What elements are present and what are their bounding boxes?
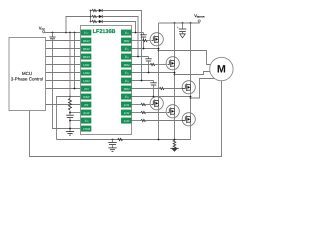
wire phase3 to motor bbox=[191, 79, 216, 99]
ground G4 analog triangle bbox=[180, 34, 186, 38]
resistor R11 gate 5 bbox=[141, 111, 146, 113]
svg-text:LO1: LO1 bbox=[123, 103, 130, 107]
pin LIN3 bbox=[81, 78, 91, 84]
op IC U1 LF2136B body bbox=[81, 26, 132, 135]
node junction RCIN bbox=[69, 112, 71, 114]
node junction phase1 tee bbox=[158, 50, 160, 52]
node junction VS1 bbox=[158, 48, 160, 50]
node junction COM bbox=[69, 128, 71, 130]
node junction VCC rail bootstrap feed bbox=[65, 32, 67, 34]
pin VS2 bbox=[121, 70, 131, 76]
resistor R3 bootstrap row 3 bbox=[91, 20, 97, 22]
wire MCU to LIN3 bbox=[46, 80, 82, 82]
wire R8 to Q2 gate bbox=[155, 64, 168, 66]
wire MCU to EN bbox=[46, 104, 82, 106]
wire VB2 bbox=[132, 56, 149, 58]
pin LO1 bbox=[121, 102, 131, 108]
svg-text:HO2: HO2 bbox=[123, 63, 130, 67]
wire D1 to VB3 bbox=[102, 11, 141, 81]
resistor R4 RCIN chain bbox=[69, 99, 72, 110]
pin VB2 bbox=[121, 54, 131, 60]
svg-text:MCU: MCU bbox=[22, 71, 32, 76]
wire HO1 bbox=[132, 40, 143, 42]
node junction C5 bottom bbox=[148, 72, 150, 74]
wire VSS bbox=[70, 120, 82, 122]
svg-text:HO3: HO3 bbox=[123, 87, 130, 91]
node junction VSS bbox=[69, 120, 71, 122]
pin VSS bbox=[81, 118, 91, 124]
pin VB1 bbox=[121, 30, 131, 36]
node junction FO pull-up bbox=[74, 88, 76, 90]
node junction VS3 bbox=[190, 96, 192, 98]
wire MCU to HIN3 bbox=[46, 56, 82, 58]
wire HO3 bbox=[132, 88, 160, 90]
wire VB1 bbox=[132, 32, 144, 34]
node junction Q5 source bbox=[174, 139, 176, 141]
node junction ITRIP chain bbox=[69, 96, 71, 98]
wire Q1 drain to rail bbox=[158, 23, 160, 37]
resistor R9 gate 3 bbox=[160, 87, 165, 89]
pin LIN2 bbox=[81, 70, 91, 76]
node junction VCC rail chain bbox=[69, 32, 71, 34]
svg-text:LIN1: LIN1 bbox=[82, 63, 90, 67]
node junction C4 bottom bbox=[143, 48, 145, 50]
node junction VCC rail C1 bbox=[52, 32, 54, 34]
pin VB3 bbox=[121, 78, 131, 84]
wire Q4 source down bbox=[158, 110, 160, 140]
pin VCC bbox=[81, 30, 91, 36]
resistor R5 sense rail bbox=[118, 138, 123, 140]
node junction column mid bbox=[90, 16, 92, 18]
wire R7 to Q1 gate bbox=[147, 40, 151, 42]
pin HIN1 bbox=[81, 38, 91, 44]
pin HIN3 bbox=[81, 54, 91, 60]
node junction VB2 bbox=[137, 56, 139, 58]
wire MCU to FO fault bbox=[46, 88, 82, 90]
MCU U2 box bbox=[9, 38, 46, 111]
pin COM bbox=[81, 126, 91, 132]
wire HO2 bbox=[132, 64, 151, 66]
diode D1 bootstrap row 1 bbox=[97, 9, 103, 12]
node junction VB3 bbox=[141, 80, 143, 82]
ground G3 power bbox=[170, 148, 178, 152]
resistor R7 gate 1 bbox=[143, 39, 148, 41]
node junction Q4 source bbox=[158, 139, 160, 141]
wire Q5 source down bbox=[174, 118, 176, 140]
resistor R2 bootstrap row 2 bbox=[91, 15, 97, 17]
svg-text:LO2: LO2 bbox=[123, 111, 130, 115]
ground G1 signal bbox=[66, 132, 74, 136]
wire R12 to Q6 gate bbox=[146, 120, 182, 122]
resistor R1 bootstrap row 1 bbox=[91, 9, 97, 11]
wire fault pull-up stub bbox=[74, 33, 76, 89]
wire R9 to Q3 gate bbox=[164, 88, 182, 90]
svg-text:3-Phase Control: 3-Phase Control bbox=[11, 76, 44, 81]
resistor R10 gate 4 bbox=[141, 103, 146, 105]
wire Q3 drain to rail bbox=[190, 23, 192, 85]
wire MCU to LIN2 bbox=[46, 72, 82, 74]
wire C1 return down to COM node bbox=[53, 39, 71, 128]
svg-text:M: M bbox=[217, 64, 226, 76]
svg-text:HIN3: HIN3 bbox=[82, 55, 90, 59]
svg-text:HIN2: HIN2 bbox=[82, 47, 90, 51]
wire phase3 vertical bbox=[190, 94, 192, 113]
svg-text:ITRIP: ITRIP bbox=[82, 96, 90, 99]
pin HIN2 bbox=[81, 46, 91, 52]
ground G2 signal bbox=[108, 148, 116, 152]
node junction column bottom bbox=[90, 21, 92, 23]
pin ITRIP bbox=[81, 94, 91, 100]
capacitor C2 RCIN bbox=[66, 115, 74, 117]
node junction rail Q3 drain bbox=[190, 22, 192, 24]
wire D3 to VB1 bbox=[102, 22, 135, 33]
node junction C6 bottom bbox=[153, 96, 155, 98]
wire VCC rail to pin VCC bbox=[45, 32, 82, 34]
wire Q2 drain to rail bbox=[174, 23, 176, 61]
pin HO1 bbox=[121, 38, 131, 44]
svg-text:HO1: HO1 bbox=[123, 39, 130, 43]
transistor Q2 high side 2 bbox=[166, 57, 179, 70]
node junction rail Q2 drain bbox=[174, 22, 176, 24]
wire MCU to LIN1 bbox=[46, 64, 82, 66]
capacitor C4 bootstrap 1 bbox=[140, 33, 146, 49]
node VMOTOR terminal bbox=[194, 13, 205, 22]
transistor Q4 low side 1 bbox=[150, 97, 163, 110]
wire D2 to VB2 bbox=[102, 17, 138, 57]
wire LO2 bbox=[132, 112, 142, 114]
wire RCIN bbox=[70, 112, 82, 114]
wire VS1 bbox=[132, 48, 159, 50]
capacitor C1 VCC decoupling bbox=[49, 33, 55, 39]
wire VS2 bbox=[132, 72, 175, 74]
svg-text:+: + bbox=[177, 25, 179, 29]
node junction phase2 tee bbox=[174, 74, 176, 76]
wire ITRIP to sense rail bbox=[57, 97, 82, 140]
pin HO2 bbox=[121, 62, 131, 68]
wire MCU ground drop and bottom rail bbox=[30, 81, 222, 157]
pin RCIN bbox=[81, 110, 91, 116]
motor M bbox=[210, 57, 233, 80]
wire MCU to HIN2 bbox=[46, 48, 82, 50]
pin EN bbox=[81, 102, 91, 108]
transistor Q1 high side 1 bbox=[150, 33, 163, 46]
wire VMOTOR rail bbox=[159, 22, 200, 23]
resistor R8 gate 2 bbox=[150, 63, 155, 65]
node junction column top bbox=[90, 10, 92, 12]
node junction sense rail cap bbox=[112, 139, 114, 141]
capacitor C3 sense filter bbox=[108, 140, 116, 148]
svg-text:LIN3: LIN3 bbox=[82, 79, 90, 83]
wire R11 to Q5 gate bbox=[146, 112, 168, 114]
wire R10 to Q4 gate bbox=[146, 104, 152, 106]
wire bootstrap feed from VCC rail bbox=[66, 17, 91, 33]
pin VS3 bbox=[121, 94, 131, 100]
transistor Q5 low side 2 bbox=[166, 105, 179, 118]
wire phase2 vertical bbox=[174, 70, 176, 105]
capacitor C6 bootstrap 3 bbox=[150, 81, 156, 97]
wire LO3 bbox=[132, 120, 142, 122]
resistor R12 gate 6 bbox=[141, 119, 146, 121]
capacitor C5 bootstrap 2 bbox=[145, 57, 151, 73]
pin FO bbox=[81, 86, 91, 92]
svg-text:LF2136B: LF2136B bbox=[93, 29, 116, 35]
wire VB3 bbox=[132, 80, 154, 82]
pin LO2 bbox=[121, 110, 131, 116]
wire MCU to HIN1 bbox=[46, 40, 82, 42]
resistor R6 current sense bbox=[173, 140, 176, 148]
diode D2 bootstrap row 2 bbox=[97, 15, 103, 18]
svg-text:RCIN: RCIN bbox=[82, 112, 89, 115]
svg-text:LO3: LO3 bbox=[123, 119, 130, 123]
diode D3 bootstrap row 3 bbox=[97, 20, 103, 23]
svg-text:FO: FO bbox=[83, 87, 89, 91]
wire LO1 bbox=[132, 104, 142, 106]
capacitor C7 bus bbox=[177, 23, 187, 34]
wire VS3 bbox=[132, 96, 191, 98]
wire Q6 source to sense rail bbox=[57, 126, 191, 140]
wire phase1 vertical bbox=[158, 46, 160, 97]
wire phase2 to motor bbox=[175, 72, 216, 75]
wire COM bbox=[70, 128, 82, 130]
pin HO3 bbox=[121, 86, 131, 92]
wire R4 to RCIN node bbox=[69, 110, 71, 115]
node junction phase3 tee bbox=[190, 97, 192, 99]
wire chain from VCC rail bbox=[69, 33, 71, 99]
wire bootstrap column bbox=[90, 11, 92, 22]
node junction rail cap C7 bbox=[182, 22, 184, 24]
transistor Q3 high side 3 bbox=[182, 81, 195, 94]
node junction VB1 bbox=[135, 32, 137, 34]
wire C2 to ground bbox=[69, 118, 71, 132]
svg-text:LIN2: LIN2 bbox=[82, 71, 90, 75]
pin VS1 bbox=[121, 46, 131, 52]
node junction VCC rail fault pullup bbox=[74, 32, 76, 34]
transistor Q6 low side 3 bbox=[182, 113, 195, 126]
pin LO3 bbox=[121, 118, 131, 124]
svg-text:COM: COM bbox=[83, 127, 90, 131]
node junction VS2 bbox=[174, 72, 176, 74]
pin LIN1 bbox=[81, 62, 91, 68]
node VCC terminal bbox=[39, 25, 45, 32]
wire phase1 to motor bbox=[159, 51, 216, 65]
svg-text:HIN1: HIN1 bbox=[82, 39, 90, 43]
